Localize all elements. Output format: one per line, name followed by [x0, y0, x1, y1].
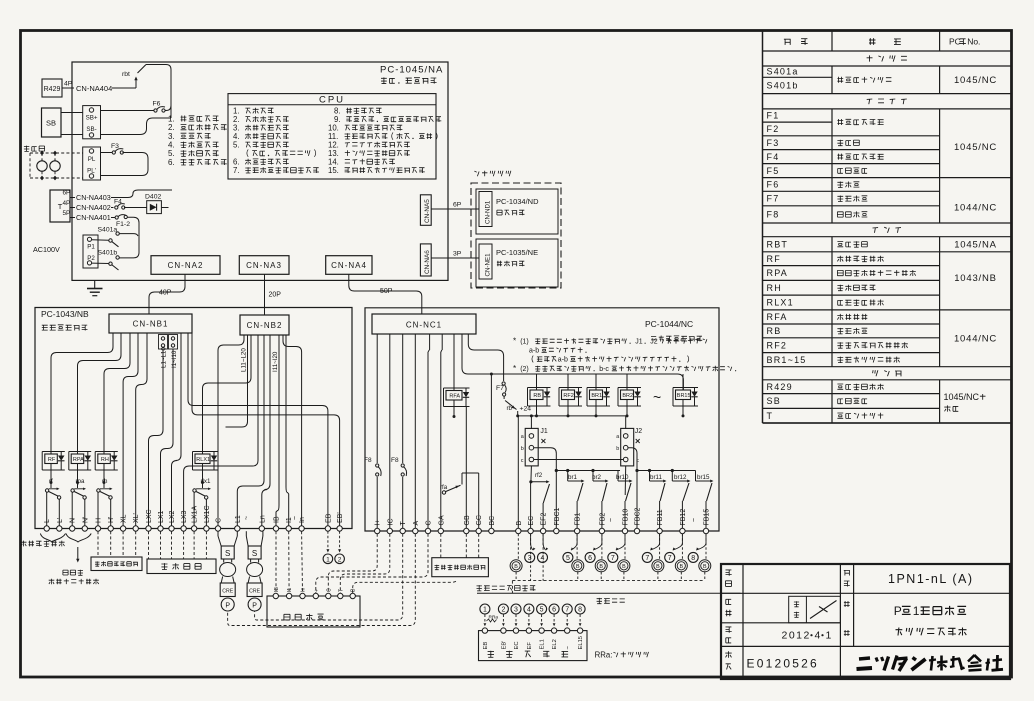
- numbered circle 7 under FB11: [642, 534, 659, 563]
- wire rbt to F6: [146, 65, 171, 111]
- svg-text:BR1~15: BR1~15: [767, 355, 807, 365]
- svg-text:1045/NC: 1045/NC: [954, 75, 997, 86]
- svg-text:1044/NC: 1044/NC: [954, 334, 997, 345]
- svg-text:RH: RH: [101, 457, 109, 463]
- box fire extinguishing equipment: [147, 559, 216, 574]
- wire B line: [516, 411, 519, 528]
- svg-text:br10: br10: [616, 474, 629, 481]
- svg-text:XL: XL: [121, 514, 128, 523]
- svg-text:b-c: b-c: [599, 366, 609, 373]
- wire T pin 6P CN-NA403: [63, 190, 173, 203]
- board PC-1035/NE (transfer board): [476, 239, 558, 287]
- contact br1: [568, 471, 585, 502]
- svg-text:CN-NA403: CN-NA403: [76, 193, 111, 202]
- wire CN-NB2 to L1: [237, 335, 264, 526]
- svg-text:R429: R429: [767, 382, 793, 392]
- wire CN-NC1 to relay bus: [462, 334, 683, 390]
- terminals I+..FB15: [375, 508, 711, 534]
- note 1 jumper: [513, 336, 707, 363]
- contact br10: [616, 471, 633, 502]
- label RRa option: [595, 650, 649, 659]
- numbered circle 5 under FB1: [563, 534, 577, 563]
- svg-text:5P: 5P: [63, 210, 71, 217]
- header I1~I10: [169, 335, 179, 369]
- svg-text:B: B: [516, 521, 523, 526]
- svg-text:CRE: CRE: [249, 589, 260, 595]
- scale box: [789, 596, 841, 623]
- svg-text:L1: L1: [235, 515, 242, 523]
- detector chain 1 (S + P): [218, 531, 237, 611]
- svg-text:SB-: SB-: [86, 126, 96, 133]
- switch S401b: [98, 250, 120, 271]
- svg-text:br1: br1: [568, 474, 578, 481]
- svg-text:IB: IB: [274, 516, 281, 523]
- svg-text:RH: RH: [767, 283, 782, 293]
- wire CN-NB2 to In: [283, 335, 302, 526]
- svg-text:20P: 20P: [269, 292, 282, 299]
- svg-text:2: 2: [338, 557, 342, 564]
- wire dashed EB' to circle 2: [338, 531, 341, 552]
- parts table: [763, 31, 1012, 424]
- connector CN-NA3: [239, 256, 289, 275]
- svg-text:S: S: [225, 549, 230, 558]
- wire dashed district bell bus: [512, 581, 704, 593]
- svg-text:EB: EB: [483, 642, 489, 650]
- svg-text:I+: I+: [375, 519, 382, 525]
- wire to EB': [192, 333, 340, 526]
- svg-text:PC-1034/ND: PC-1034/ND: [496, 197, 539, 206]
- brace fire transfer: [40, 534, 91, 543]
- svg-text:1043/NB: 1043/NB: [954, 273, 997, 284]
- wire dashed B terminal to sub receiver: [353, 580, 457, 593]
- wire rfa to GC: [462, 473, 479, 528]
- svg-text:1044/NC: 1044/NC: [954, 202, 997, 213]
- wire CN-NB1 to RPA coil: [78, 333, 122, 450]
- svg-text:7: 7: [611, 555, 615, 562]
- wire c line J1 to J2: [534, 459, 624, 461]
- svg-text:RPA: RPA: [767, 268, 788, 278]
- wire CN-NA4 50P to CN-NC1: [349, 274, 422, 314]
- wire lamps dashed to PL: [30, 151, 83, 181]
- contact br2: [592, 471, 609, 502]
- drawing number E0120526: [747, 657, 819, 671]
- wire F1-2 to S401 contacts: [120, 217, 140, 258]
- wire dashed T to detector chain 2: [255, 534, 403, 620]
- date 2012.4.1: [782, 629, 832, 641]
- option outer box: [471, 183, 561, 288]
- svg-text:a: a: [521, 434, 524, 440]
- svg-text:E0120526: E0120526: [747, 657, 819, 671]
- circle B under B terminal: [510, 534, 522, 581]
- svg-text:GA: GA: [438, 515, 445, 525]
- box emergency broadcast panel: [479, 628, 588, 661]
- svg-text:7: 7: [645, 555, 649, 562]
- svg-text:GC: GC: [476, 515, 483, 526]
- svg-text:CN-NA2: CN-NA2: [168, 261, 204, 270]
- connector CN-ND1: [479, 192, 492, 227]
- svg-text:RLX1: RLX1: [767, 298, 794, 308]
- svg-text:L1~L10: L1~L10: [161, 347, 168, 368]
- connector CN-NA6: [420, 244, 431, 276]
- svg-text:1045/NC: 1045/NC: [944, 392, 980, 402]
- svg-text:+: +: [314, 589, 320, 592]
- contact br15: [696, 471, 714, 502]
- svg-text:(2): (2): [520, 366, 529, 373]
- diode D402: [145, 194, 169, 214]
- svg-text:C: C: [326, 588, 332, 592]
- resistor R429: [42, 79, 62, 97]
- label district bell simultaneous: [477, 585, 741, 593]
- svg-text:T: T: [400, 521, 407, 526]
- box sub receiver (fuku-jushinki): [267, 587, 360, 627]
- svg-text:6.: 6.: [168, 158, 175, 167]
- wire br11 to terminal: [659, 501, 661, 528]
- svg-text:rfa: rfa: [440, 484, 448, 491]
- svg-text:In: In: [299, 517, 306, 523]
- svg-text:IB: IB: [274, 587, 280, 592]
- svg-text:C: C: [426, 520, 433, 525]
- svg-text:P1: P1: [87, 244, 95, 251]
- option group label: [474, 171, 511, 177]
- wire T pin 5P CN-NA401: [63, 210, 116, 222]
- relay BR2: [618, 374, 641, 417]
- svg-text:B: B: [576, 564, 580, 570]
- battery SB (standby battery): [42, 108, 62, 137]
- wire contact rh to terminals: [98, 492, 111, 526]
- contact rpa: [71, 478, 86, 499]
- contact rf2: [531, 472, 550, 503]
- svg-text:FB10: FB10: [623, 509, 630, 526]
- wire header to LX1: [161, 349, 174, 526]
- svg-text:FB15: FB15: [704, 509, 711, 526]
- svg-text:1: 1: [913, 604, 920, 618]
- svg-text:5.: 5.: [233, 140, 240, 149]
- svg-text:F6: F6: [767, 180, 780, 190]
- svg-text:No.: No.: [967, 37, 980, 47]
- svg-text:FB12: FB12: [680, 509, 687, 526]
- svg-text:EB': EB': [337, 512, 344, 523]
- svg-text:S: S: [252, 549, 257, 558]
- svg-text:BR1: BR1: [591, 393, 602, 399]
- box disaster report receiver: [432, 558, 489, 577]
- svg-text:PC-1043/NB: PC-1043/NB: [41, 309, 89, 319]
- svg-text:RRa: RRa: [489, 615, 499, 621]
- wire CN-NC1 to I+ with fuse F8: [364, 334, 381, 528]
- switch rbt (battery test relay contact): [122, 65, 146, 89]
- wire CN-NB1 to RH coil: [104, 333, 130, 450]
- svg-text:FB2: FB2: [599, 513, 606, 526]
- svg-text:J1: J1: [540, 428, 548, 435]
- svg-text:CN-NA4: CN-NA4: [331, 261, 367, 270]
- wire CN-NC1 to RFA coil: [453, 334, 455, 376]
- contact rf: [45, 478, 60, 499]
- wire dashed LXC..LX1C to extinguishing box: [149, 531, 207, 559]
- svg-text:CN-NC1: CN-NC1: [406, 321, 442, 330]
- svg-text:EL1: EL1: [540, 639, 546, 649]
- resistor RRa: [487, 615, 499, 623]
- wire CN-NB2 to Ln: [262, 335, 270, 526]
- svg-text:FB1: FB1: [575, 513, 582, 526]
- wire dashed IC to sub receiver: [340, 534, 390, 594]
- svg-text:+24: +24: [520, 406, 532, 413]
- switch S401a: [98, 227, 120, 247]
- svg-text:3P: 3P: [453, 251, 462, 258]
- ground: [87, 280, 103, 295]
- note 2 jumper: [513, 364, 736, 373]
- wire J2 to FB10: [624, 466, 627, 495]
- wire J1-b to FBC1: [534, 448, 558, 529]
- label detector restoration pulse transfer: [49, 570, 99, 585]
- svg-text:H': H': [108, 517, 115, 523]
- circle B under FB15: [699, 534, 711, 581]
- connector CN-NB1: [109, 314, 192, 333]
- svg-text:F5: F5: [767, 166, 780, 176]
- svg-text:I11~I20: I11~I20: [272, 351, 279, 372]
- circle B under FB12: [675, 534, 687, 581]
- svg-text:SB: SB: [46, 119, 56, 128]
- svg-text:RF: RF: [767, 254, 781, 264]
- svg-text:RF2: RF2: [563, 393, 573, 399]
- svg-text:T: T: [767, 411, 774, 421]
- wire dashed EC down: [530, 534, 532, 581]
- svg-text:~: ~: [244, 516, 251, 520]
- svg-text:CN-NA5: CN-NA5: [424, 199, 431, 223]
- relay BR15: [673, 374, 698, 417]
- svg-text:7: 7: [565, 607, 569, 614]
- svg-text:4P: 4P: [64, 81, 73, 88]
- tilde between BR2 and BR15: [653, 389, 661, 405]
- svg-text:a-b: a-b: [558, 357, 568, 364]
- svg-text:LX2: LX2: [169, 510, 176, 523]
- fuse F4: [114, 199, 147, 210]
- svg-text:B: B: [599, 564, 603, 570]
- numbered circle 3 under EC: [525, 534, 536, 563]
- svg-text:F7: F7: [767, 194, 780, 204]
- relay RPA: [69, 440, 91, 485]
- svg-text:1PN1-nL (A): 1PN1-nL (A): [888, 572, 974, 586]
- label hyoujitou (pilot lamp): [24, 146, 45, 152]
- circle B under FB10: [618, 534, 630, 581]
- fuse F3: [101, 143, 124, 154]
- svg-text:J2: J2: [650, 339, 658, 346]
- svg-text:CN-NA402: CN-NA402: [76, 203, 111, 212]
- svg-text:B: B: [351, 588, 357, 592]
- box fire hydrant starter: [91, 557, 142, 571]
- wire T pin 4P CN-NA402: [63, 200, 114, 212]
- connector CN-NA4: [326, 256, 372, 275]
- wire dashed I+ to sub receiver: [328, 534, 377, 594]
- relay RB: [528, 374, 551, 417]
- svg-text:B: B: [514, 564, 518, 570]
- svg-text:BC: BC: [489, 516, 496, 526]
- jumper J2: [616, 428, 642, 466]
- svg-text:6P: 6P: [63, 190, 71, 197]
- svg-text:PL: PL: [88, 156, 96, 163]
- svg-text:LX3: LX3: [181, 510, 188, 523]
- label district bell: [597, 598, 625, 604]
- wire P1 to S401a: [92, 239, 109, 242]
- lamp PL1: [37, 159, 47, 171]
- svg-text:EL15: EL15: [578, 636, 584, 650]
- wire CN-NB2 to I1: [286, 335, 289, 526]
- wire CN-NB2 I11~I20 to IB: [272, 335, 279, 526]
- contact rh: [97, 478, 113, 499]
- svg-text:rf2: rf2: [535, 472, 543, 479]
- svg-text:EB': EB': [502, 641, 508, 650]
- svg-text:LXC: LXC: [146, 509, 153, 523]
- wire CN-NA2 40P to CN-NB1: [149, 274, 185, 313]
- wire CN-NB1 to LX2: [172, 333, 182, 526]
- svg-text:H: H: [96, 518, 103, 523]
- svg-text:RFA: RFA: [449, 393, 460, 399]
- svg-text:~: ~: [608, 518, 615, 522]
- svg-text:1: 1: [483, 607, 487, 614]
- wire CN-NC1 to F7: [468, 334, 503, 381]
- svg-text:PC-1044/NC: PC-1044/NC: [645, 319, 693, 329]
- wire CN-NA5 6P to CN-ND1: [431, 202, 479, 210]
- numbered circle 4 under EF2: [538, 534, 549, 563]
- svg-text:CN-NE1: CN-NE1: [484, 253, 491, 277]
- svg-text:F8: F8: [767, 210, 780, 220]
- wire P2 to S401b: [92, 262, 109, 264]
- svg-text:I1~I10: I1~I10: [171, 350, 178, 368]
- svg-text:RLX1: RLX1: [196, 457, 210, 463]
- CPU block U-CPU: [228, 94, 441, 179]
- contact br11: [650, 471, 667, 502]
- svg-text:PC-1045/NA: PC-1045/NA: [380, 65, 443, 76]
- svg-text:SB: SB: [767, 396, 781, 406]
- terminals L..EB': [44, 505, 344, 531]
- contact rb +24: [504, 396, 531, 413]
- wire F3 loop to PL': [101, 153, 149, 176]
- wire dashed EF2 down: [542, 534, 544, 581]
- relay RF: [42, 440, 65, 485]
- svg-text:br2: br2: [592, 474, 602, 481]
- wire CN-NB2 to C: [218, 335, 244, 526]
- svg-text:PC: PC: [949, 37, 961, 47]
- relay RH: [95, 440, 118, 485]
- svg-text:a: a: [616, 434, 619, 440]
- svg-text:3: 3: [528, 555, 532, 562]
- jumper J1: [521, 428, 548, 466]
- svg-text:EC: EC: [528, 516, 535, 526]
- svg-text:LX1C: LX1C: [204, 505, 211, 523]
- svg-text:5: 5: [540, 607, 544, 614]
- relay RLX1: [193, 440, 218, 485]
- svg-text:3.: 3.: [168, 132, 175, 141]
- wire CN-NB1 to RF coil: [51, 333, 113, 450]
- svg-text:J1: J1: [635, 339, 643, 346]
- svg-text:F4: F4: [114, 199, 122, 206]
- wire dashed IB I1 In to sub receiver: [276, 531, 303, 593]
- svg-text:a-b: a-b: [529, 348, 539, 355]
- svg-text:6: 6: [552, 607, 556, 614]
- svg-text:L': L': [57, 518, 64, 523]
- svg-text:(1): (1): [520, 339, 529, 346]
- wire CN-NB2 to RLX1 coil: [203, 335, 252, 440]
- wire br12 to terminal: [681, 501, 683, 528]
- wire bell bus right: [637, 469, 696, 472]
- svg-text:L11~L20: L11~L20: [241, 348, 248, 372]
- svg-text:In: In: [301, 588, 307, 592]
- svg-text:15.: 15.: [328, 166, 339, 175]
- svg-text:5: 5: [566, 555, 570, 562]
- svg-text:CPU: CPU: [319, 94, 345, 105]
- svg-text:1045/NC: 1045/NC: [954, 142, 997, 153]
- svg-text:PC-1035/NE: PC-1035/NE: [496, 248, 538, 257]
- svg-text:8: 8: [691, 555, 695, 562]
- product name P-type class-1 receiver: [894, 604, 967, 636]
- label PC-1035/NE: [496, 248, 538, 266]
- label fire representative transfer: [21, 541, 80, 563]
- board PC-1043/NB (plug-in terminal board): [35, 308, 352, 529]
- wire br10 to terminal: [624, 501, 626, 528]
- board PC-1034/ND (history board): [476, 189, 558, 234]
- svg-text:~: ~: [691, 518, 698, 522]
- svg-text:RBT: RBT: [767, 239, 789, 249]
- svg-text:CN-NB2: CN-NB2: [247, 321, 283, 330]
- svg-text:D402: D402: [145, 194, 161, 201]
- wire CN-NB2 to LX3: [184, 335, 258, 526]
- svg-text:7.: 7.: [233, 166, 240, 175]
- wire CN-NB1 to XL: [123, 333, 138, 526]
- svg-text:RF2: RF2: [767, 340, 788, 350]
- svg-text:P: P: [252, 603, 257, 610]
- header L1~L10: [159, 335, 168, 369]
- lamp PL2: [50, 159, 60, 171]
- svg-text:RF: RF: [48, 457, 56, 463]
- svg-text:1: 1: [826, 629, 832, 641]
- svg-text:CN-NB1: CN-NB1: [133, 320, 169, 329]
- board PC-1044/NC (screw terminal board): [365, 308, 719, 531]
- svg-text:6: 6: [588, 555, 592, 562]
- title block: [721, 564, 1010, 679]
- svg-text:1: 1: [326, 557, 330, 564]
- svg-text:EC: EC: [514, 641, 520, 649]
- wire CN-NC1 to GA: [441, 334, 442, 528]
- svg-text:BR2: BR2: [622, 393, 633, 399]
- numbered circle 8 under FB15: [688, 534, 706, 563]
- connector CN-NC1: [372, 314, 476, 334]
- svg-text:S401a: S401a: [98, 227, 118, 234]
- wire br2 to terminal: [601, 501, 603, 528]
- wire SB- into board: [101, 106, 172, 135]
- wire CN-NB1 to XL': [136, 333, 147, 526]
- svg-text:40P: 40P: [159, 290, 172, 297]
- wire J2-b to FBC2: [628, 448, 639, 529]
- connector PL/PL': [83, 147, 101, 180]
- svg-text:RB: RB: [767, 326, 782, 336]
- wire CN-NC1 to A: [414, 334, 416, 528]
- contact rfa: [440, 484, 461, 494]
- svg-text:4: 4: [541, 555, 545, 562]
- connector CN-NB2: [240, 315, 289, 335]
- wire CN-NC1 to C: [428, 334, 430, 528]
- svg-text:FB11: FB11: [657, 509, 664, 525]
- board PC-1045/NA (display/control board): [72, 62, 448, 280]
- wire SB to SB+: [61, 112, 83, 114]
- svg-text:b: b: [616, 446, 619, 452]
- wire dashed A to detector chain 1: [228, 534, 416, 626]
- wire CN-NC1 to IC: [389, 334, 391, 528]
- svg-text:CN-ND1: CN-ND1: [484, 200, 491, 224]
- svg-text:S401a: S401a: [767, 67, 799, 77]
- svg-text:3: 3: [514, 607, 518, 614]
- svg-text:rh: rh: [102, 478, 108, 485]
- connector CN-NE1: [479, 244, 492, 279]
- svg-text:C: C: [216, 518, 223, 523]
- svg-text:4: 4: [527, 607, 531, 614]
